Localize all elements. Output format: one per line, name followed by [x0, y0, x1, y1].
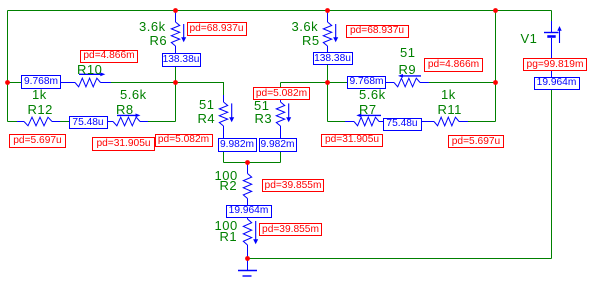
- designator label R12: [28, 105, 53, 115]
- power label pd=5.697u (R12): [9, 134, 66, 148]
- resistor R12: [17, 117, 60, 126]
- value label 5.6k (R7): [359, 90, 386, 100]
- power label pd=4.866m (R9): [424, 58, 483, 72]
- value label 1k (R11): [441, 90, 456, 100]
- designator label R3: [255, 114, 273, 124]
- resistor R9: [386, 78, 429, 87]
- resistor R2: [243, 163, 251, 206]
- value label 100 (R2): [215, 171, 238, 181]
- power label pd=31.905u (R8): [92, 137, 155, 151]
- power label pd=68.937u (R5): [346, 25, 409, 38]
- power label pd=39.855m (R1): [259, 223, 322, 236]
- junction node B right rail: [493, 80, 498, 85]
- value label 51 (R4): [199, 100, 214, 110]
- wire lower-right row (R7-R11 net): [328, 121, 496, 123]
- wire R5 bottom to node B: [327, 65, 329, 83]
- current box 138.38u (R6): [162, 53, 201, 67]
- current arrow R4: [231, 103, 233, 117]
- designator label R7: [359, 105, 377, 115]
- resistor R1: [243, 217, 251, 259]
- resistor R8: [108, 117, 148, 126]
- ground: [238, 259, 257, 277]
- wire left rail: [7, 11, 9, 122]
- junction R4-R3-R2: [245, 160, 250, 165]
- wire R3 bottom drop: [280, 152, 282, 163]
- junction node A: [173, 80, 178, 85]
- wire R4 bottom drop: [223, 152, 225, 163]
- designator label R8: [116, 105, 134, 115]
- label arrow R8: [117, 114, 136, 116]
- designator label R9: [399, 65, 417, 75]
- current box 75.48u (R12-R8): [69, 116, 108, 129]
- power label pd=31.905u (R7): [321, 134, 383, 147]
- label arrow R7: [361, 114, 381, 116]
- label arrow R9: [403, 75, 422, 77]
- wire node-A drop x=175: [175, 83, 177, 122]
- label arrow R10: [79, 73, 101, 75]
- designator label R6: [150, 36, 168, 46]
- current box 9.982m (R3): [259, 138, 297, 152]
- power label pg=99.819m (V1): [523, 58, 587, 71]
- power label pd=39.855m (R2): [262, 179, 324, 192]
- resistor R7: [345, 117, 383, 126]
- resistor R11: [421, 117, 468, 126]
- current box 19.964m (R2-R1): [226, 205, 272, 218]
- designator label R11: [438, 105, 462, 115]
- value label 3.6k (R5): [292, 22, 319, 32]
- designator label R1: [220, 232, 238, 242]
- value label 51 (R3): [254, 101, 269, 111]
- wire V1 bottom rail: [551, 90, 553, 259]
- value label 1k (R12): [32, 90, 47, 100]
- current arrow R6: [183, 24, 185, 38]
- current box 19.964m (V1): [534, 77, 580, 90]
- junction node B: [325, 80, 330, 85]
- resistor R5: [323, 11, 331, 54]
- wire lower-left row (R12-R8 net): [8, 121, 176, 123]
- wire R6 bottom to node A: [175, 66, 177, 83]
- wire node-B drop x=327: [327, 83, 329, 122]
- designator label R5: [302, 36, 320, 46]
- power label pd=68.937u (R6): [187, 22, 247, 36]
- wire R3 top link to node B: [281, 83, 328, 97]
- current arrow V1: [559, 31, 561, 44]
- power label pd=4.866m (R10): [80, 50, 138, 63]
- power label pd=5.082m (R3): [253, 87, 310, 100]
- junction top right rail: [493, 8, 498, 13]
- junction top R6: [173, 8, 178, 13]
- power label pd=5.082m (R4): [155, 134, 213, 147]
- junction node A left rail: [5, 80, 10, 85]
- resistor R10: [61, 78, 111, 87]
- wire mid-right row (node B): [328, 82, 496, 84]
- current box 75.48u (R7-R11): [383, 118, 422, 131]
- junction ground node: [245, 256, 250, 261]
- current arrow R1: [255, 221, 257, 240]
- power label pd=5.697u (R11): [448, 135, 504, 148]
- value label 5.6k (R8): [120, 90, 147, 100]
- designator label R2: [220, 181, 238, 191]
- value label 3.6k (R6): [139, 22, 166, 32]
- wire bottom rail: [248, 258, 552, 260]
- designator label R10: [77, 65, 102, 75]
- value label 51 (R9): [400, 48, 415, 58]
- resistor R6: [171, 11, 179, 55]
- wire R4-R3 join row: [224, 162, 281, 164]
- designator label V1: [521, 34, 538, 44]
- junction top R5: [325, 8, 330, 13]
- designator label R4: [198, 114, 216, 124]
- current box 9.982m (R4): [218, 138, 257, 152]
- current box 138.38u (R5): [313, 52, 353, 65]
- resistor R3: [276, 95, 284, 139]
- wire right inner rail x=495: [495, 11, 497, 122]
- value label 100 (R1): [215, 221, 238, 231]
- current box 9.768m (R9): [347, 76, 386, 89]
- resistor R4: [219, 95, 227, 139]
- wire V1 top lead: [551, 11, 553, 22]
- voltage source V1: [544, 21, 559, 90]
- wire mid-left row (node A): [8, 83, 224, 97]
- current arrow R5: [335, 24, 337, 38]
- current box 9.768m (R10): [21, 75, 61, 89]
- wire top rail: [8, 10, 552, 12]
- current arrow R3: [288, 103, 290, 117]
